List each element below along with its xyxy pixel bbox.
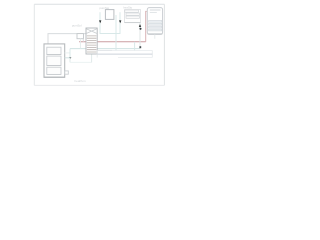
connector stub of block B1 <box>65 71 69 74</box>
flow arrow A1 <box>99 20 101 23</box>
block B2 (small box) <box>105 10 114 20</box>
flow arrow A3 <box>139 24 141 27</box>
wire P1 right drop <box>82 39 84 42</box>
svg-text:pumSto: pumSto <box>100 6 110 10</box>
svg-text:pumSol: pumSol <box>72 23 82 27</box>
pipe segment PS1 (flat pipe under teal line) <box>97 49 112 51</box>
wire faint B1 upper link <box>65 52 70 54</box>
svg-text:hexSto: hexSto <box>124 6 133 10</box>
wire teal drop at x=116 <box>115 15 117 50</box>
wire faint bottom run to HX1 bottom <box>70 61 92 63</box>
wire faint drop from P1 <box>79 39 81 49</box>
wire main loop bottom segment <box>34 84 164 86</box>
wire teal lower drop at x=70 <box>69 58 71 63</box>
tank T1 <box>147 8 162 35</box>
wire teal riser to block B3 <box>139 23 141 29</box>
wire faint teal drop at x=134.6 <box>134 42 136 51</box>
wire teal return line y=48.6 <box>70 48 140 50</box>
wire red riser to tank T1 <box>146 11 147 41</box>
wire B1 right port to junction <box>65 57 70 59</box>
wire gray supply from block B1 top to HX1 <box>48 34 86 44</box>
block B1 (three-table block) <box>44 44 65 77</box>
junction mark J3 <box>139 46 141 48</box>
wire HX1 bottom port drop <box>91 54 93 62</box>
wire red supply line y=41.8 <box>79 41 146 43</box>
wire teal U-pipe under block B2 <box>100 12 120 33</box>
svg-text:heaPum: heaPum <box>75 79 87 83</box>
wire main loop right segment <box>163 4 165 85</box>
flow arrow A2 <box>119 20 121 23</box>
pump P1 (small box on gray line) <box>77 34 84 39</box>
HX1 valve cross <box>86 29 97 34</box>
heat exchanger HX1 body <box>86 28 97 54</box>
wire teal riser at x=70 <box>69 49 71 58</box>
wire faint tank bottom port <box>154 34 156 39</box>
junction dot J2 <box>139 28 141 30</box>
PS1 centerline <box>97 53 152 55</box>
HX1 coil rungs <box>87 36 97 52</box>
wire main loop left segment <box>33 4 35 85</box>
wire main loop top segment <box>34 3 164 5</box>
junction dot J1 <box>69 57 71 59</box>
block B3 (striped louver box) <box>125 10 141 23</box>
